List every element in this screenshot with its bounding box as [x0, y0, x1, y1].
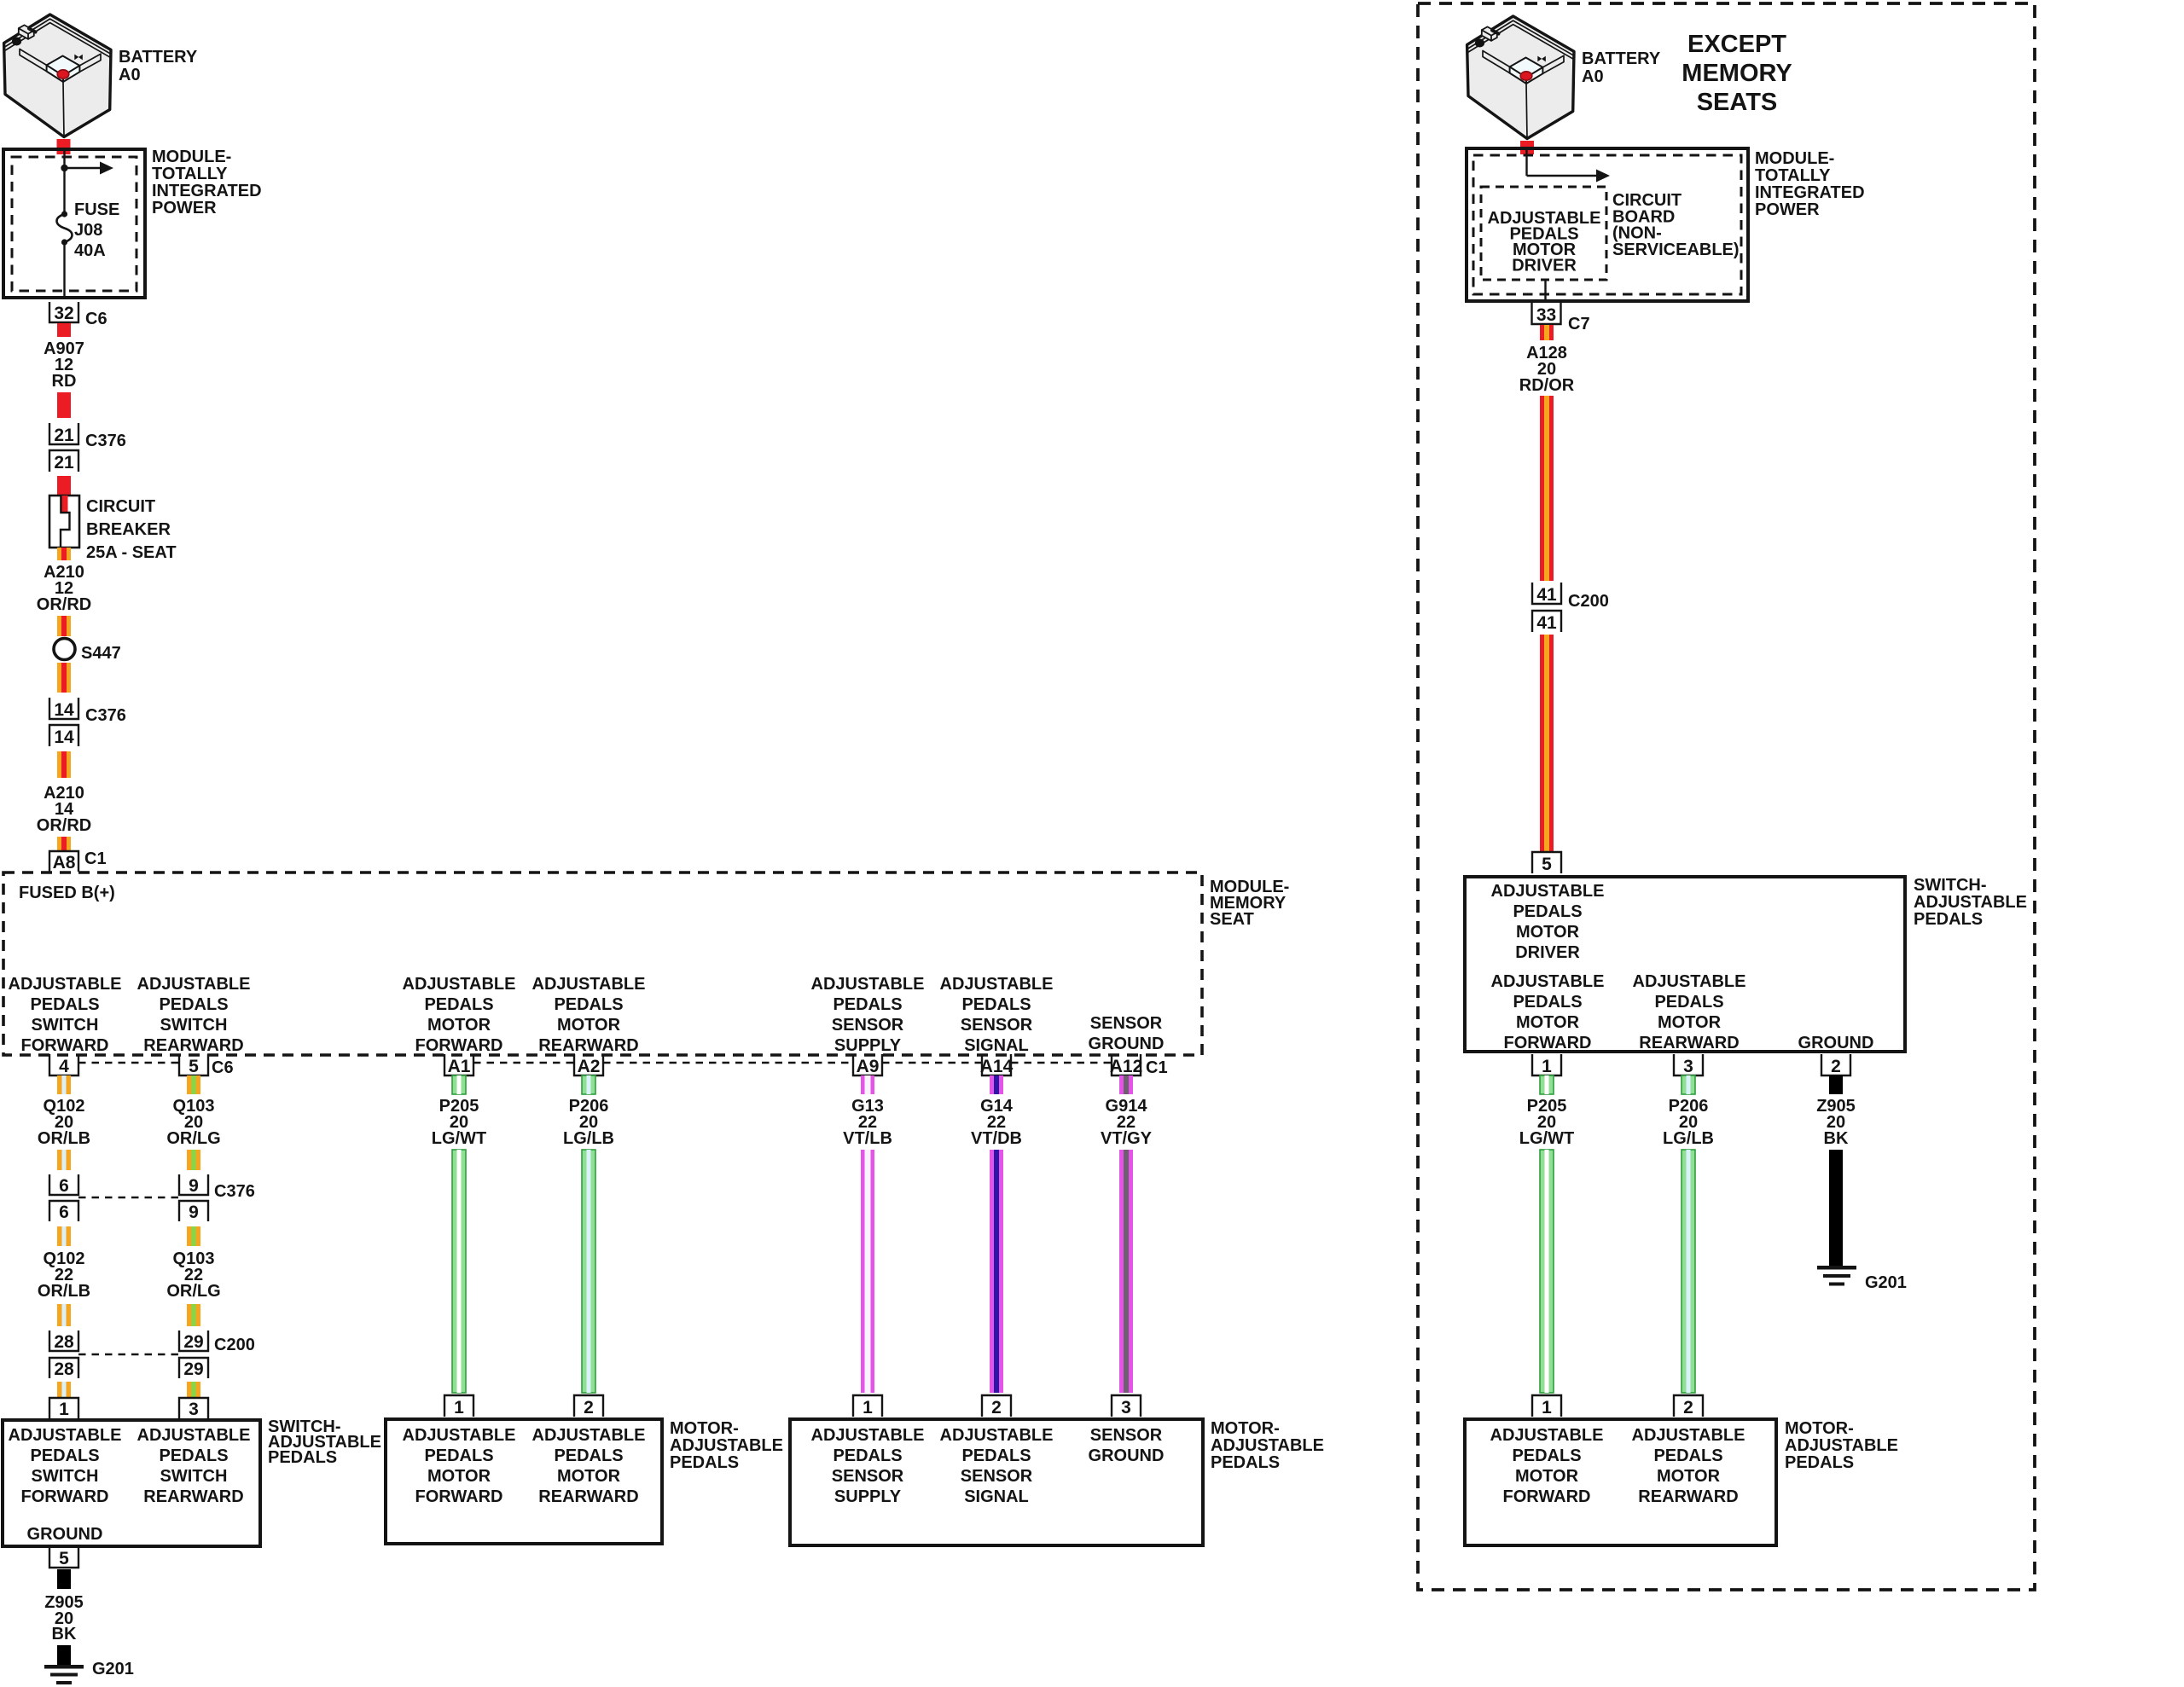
- svg-text:ADJUSTABLE: ADJUSTABLE: [9, 1426, 122, 1445]
- svg-text:1: 1: [59, 1400, 69, 1419]
- svg-text:3: 3: [1683, 1057, 1693, 1076]
- wire: Q102 stub 3 (OR/LB): [57, 1382, 71, 1398]
- connector pin 4 (C6): [49, 1054, 78, 1075]
- connector C200 pin 28 lower: [49, 1358, 78, 1378]
- svg-text:MODULE-: MODULE-: [1755, 149, 1834, 168]
- svg-text:PEDALS: PEDALS: [424, 1446, 493, 1465]
- svg-text:A0: A0: [119, 66, 141, 84]
- svg-text:BATTERY: BATTERY: [119, 48, 198, 67]
- svg-text:FORWARD: FORWARD: [415, 1487, 503, 1506]
- svg-text:PEDALS: PEDALS: [159, 995, 228, 1014]
- svg-text:LG/LB: LG/LB: [1663, 1129, 1714, 1148]
- fuse J08 40A symbol: [61, 211, 67, 217]
- svg-text:CIRCUIT: CIRCUIT: [86, 497, 155, 516]
- svg-text:2: 2: [1683, 1398, 1693, 1417]
- svg-text:ADJUSTABLE: ADJUSTABLE: [403, 1426, 516, 1445]
- wire: C1 interconnect dashes A9-A14: [882, 1062, 982, 1064]
- wire: battery A0 positive stub right (RD): [1520, 141, 1534, 154]
- svg-text:SENSOR: SENSOR: [832, 1016, 904, 1035]
- svg-text:MOTOR: MOTOR: [427, 1016, 491, 1035]
- svg-text:ADJUSTABLE: ADJUSTABLE: [1211, 1436, 1324, 1455]
- wire: G13 stub (VT/LB): [861, 1075, 874, 1094]
- wire G13 (VT/LB): [861, 1150, 874, 1393]
- wire Q102 upper (OR/LB): [57, 1150, 71, 1170]
- module MOTOR-ADJUSTABLE PEDALS box (left): [386, 1419, 662, 1544]
- svg-text:OR/LG: OR/LG: [166, 1282, 220, 1301]
- svg-text:ADJUSTABLE: ADJUSTABLE: [1491, 882, 1605, 901]
- svg-text:OR/LB: OR/LB: [38, 1282, 90, 1301]
- svg-text:C6: C6: [212, 1058, 234, 1077]
- svg-text:SIGNAL: SIGNAL: [964, 1487, 1029, 1506]
- wire: Q103 stub 3 (OR/LG): [187, 1382, 200, 1398]
- connector pin 1 (switch): [49, 1398, 78, 1418]
- svg-text:EXCEPT: EXCEPT: [1687, 31, 1786, 58]
- wire: G14 stub (VT/DB): [990, 1075, 1003, 1094]
- connector pin 1 (driver motor fwd): [1532, 1054, 1561, 1075]
- wire Q102 lower (OR/LB): [57, 1304, 71, 1326]
- svg-text:TOTALLY: TOTALLY: [152, 165, 228, 183]
- svg-text:MOTOR: MOTOR: [1658, 1013, 1722, 1032]
- connector pin 1 (motor fwd, left): [444, 1395, 473, 1417]
- wire: TIPM internal feed (bottom): [63, 242, 65, 296]
- svg-text:PEDALS: PEDALS: [554, 995, 623, 1014]
- svg-text:SWITCH: SWITCH: [160, 1016, 228, 1035]
- svg-text:MOTOR: MOTOR: [1516, 1013, 1580, 1032]
- wire: P205 stub (LG/WT): [452, 1075, 466, 1094]
- svg-text:BREAKER: BREAKER: [86, 520, 171, 539]
- svg-text:FUSE: FUSE: [74, 200, 119, 219]
- svg-text:OR/LG: OR/LG: [166, 1129, 220, 1148]
- svg-text:MOTOR: MOTOR: [427, 1467, 491, 1486]
- connector pin 3 (switch): [179, 1398, 208, 1418]
- svg-text:3: 3: [189, 1400, 199, 1419]
- svg-text:40A: 40A: [74, 241, 106, 260]
- svg-text:SENSOR: SENSOR: [1090, 1426, 1163, 1445]
- svg-text:A8: A8: [53, 853, 76, 872]
- svg-text:GROUND: GROUND: [1089, 1446, 1165, 1465]
- svg-text:PEDALS: PEDALS: [961, 1446, 1031, 1465]
- wire: Q102 stub (OR/LB): [57, 1075, 71, 1094]
- wire: P205 stub right (LG/WT): [1540, 1075, 1554, 1094]
- wire: Z905 stub right (BK): [1829, 1075, 1843, 1094]
- svg-text:9: 9: [189, 1176, 199, 1196]
- svg-text:C7: C7: [1568, 315, 1590, 333]
- svg-text:MEMORY: MEMORY: [1682, 60, 1792, 87]
- svg-text:POWER: POWER: [152, 199, 217, 217]
- svg-text:SEATS: SEATS: [1697, 89, 1778, 116]
- svg-text:INTEGRATED: INTEGRATED: [1755, 183, 1865, 202]
- connector pin 2 (driver ground): [1821, 1054, 1850, 1075]
- svg-text:SWITCH-: SWITCH-: [1914, 876, 1987, 895]
- svg-text:FORWARD: FORWARD: [21, 1036, 109, 1055]
- svg-text:BATTERY: BATTERY: [1582, 49, 1661, 68]
- svg-text:ADJUSTABLE: ADJUSTABLE: [670, 1436, 783, 1455]
- svg-text:14: 14: [54, 728, 74, 747]
- svg-text:C1: C1: [1146, 1058, 1168, 1077]
- svg-text:3: 3: [1121, 1398, 1131, 1417]
- wire P205 right (LG/WT): [1540, 1150, 1554, 1393]
- svg-text:MOTOR-: MOTOR-: [1785, 1419, 1854, 1438]
- svg-text:5: 5: [189, 1057, 199, 1076]
- connector pin A2 (C1): [574, 1054, 603, 1075]
- wire: Q102 stub 2 (OR/LB): [57, 1226, 71, 1246]
- svg-text:LG/WT: LG/WT: [432, 1129, 486, 1148]
- connector C376 pin 9 upper: [179, 1174, 208, 1195]
- svg-text:5: 5: [59, 1549, 69, 1568]
- wire: C1 interconnect dashes A2-A9: [603, 1062, 853, 1064]
- wire A128 lower (RD/OR): [1540, 635, 1554, 851]
- svg-text:TOTALLY: TOTALLY: [1755, 166, 1831, 185]
- svg-text:PEDALS: PEDALS: [1513, 993, 1582, 1012]
- svg-text:C200: C200: [1568, 592, 1609, 611]
- svg-text:FORWARD: FORWARD: [1503, 1487, 1591, 1506]
- wire Q103 lower (OR/LG): [187, 1304, 200, 1326]
- connector pin 33 (C7): [1532, 303, 1561, 324]
- connector pin A12 (C1): [1112, 1054, 1141, 1075]
- wire A210 upper (OR/RD): [57, 616, 71, 636]
- svg-text:28: 28: [54, 1332, 74, 1352]
- wire: C200 interconnect dashes 28-29: [78, 1354, 179, 1355]
- wire: C1 interconnect dashes A14-A12: [1011, 1062, 1112, 1064]
- svg-text:ADJUSTABLE: ADJUSTABLE: [1633, 972, 1746, 991]
- svg-text:G201: G201: [92, 1660, 134, 1678]
- wire: battery A0 positive stub (RD): [57, 139, 71, 154]
- svg-text:GROUND: GROUND: [1089, 1035, 1165, 1053]
- svg-text:OR/LB: OR/LB: [38, 1129, 90, 1148]
- wire A907 (RD): [57, 392, 71, 418]
- connector C376 pin 9 lower: [179, 1201, 208, 1221]
- svg-text:S447: S447: [81, 644, 121, 663]
- connector pin 5 (switch ground): [49, 1546, 78, 1568]
- connector pin 5 (driver B+): [1532, 852, 1561, 873]
- svg-text:28: 28: [54, 1359, 74, 1379]
- wire A210 below splice (OR/RD): [57, 663, 71, 693]
- connector pin 2 (motor rwd, left): [574, 1395, 603, 1417]
- svg-text:4: 4: [59, 1057, 69, 1076]
- wire Z905 (BK): [57, 1645, 71, 1666]
- svg-text:6: 6: [59, 1203, 69, 1222]
- wire P206 (LG/LB): [582, 1150, 595, 1393]
- svg-text:33: 33: [1536, 305, 1556, 325]
- wire: Q103 stub (OR/LG): [187, 1075, 200, 1094]
- connector pin 5 (C6): [179, 1054, 208, 1075]
- svg-text:ADJUSTABLE: ADJUSTABLE: [1785, 1436, 1898, 1455]
- svg-text:LG/WT: LG/WT: [1519, 1129, 1574, 1148]
- connector C376 pin 21 lower: [49, 450, 78, 472]
- module MEMORY SEAT dashed box: [3, 872, 1202, 1055]
- svg-text:PEDALS: PEDALS: [159, 1446, 228, 1465]
- svg-text:RD/OR: RD/OR: [1519, 376, 1575, 395]
- svg-text:DRIVER: DRIVER: [1515, 943, 1580, 962]
- svg-text:PEDALS: PEDALS: [670, 1453, 739, 1472]
- svg-text:SUPPLY: SUPPLY: [834, 1036, 902, 1055]
- svg-text:VT/GY: VT/GY: [1101, 1129, 1153, 1148]
- svg-text:REARWARD: REARWARD: [538, 1487, 638, 1506]
- svg-text:C200: C200: [214, 1336, 255, 1354]
- svg-text:GROUND: GROUND: [27, 1525, 103, 1544]
- svg-text:J08: J08: [74, 221, 102, 240]
- arrow: TIPM bus feed (right): [1527, 175, 1599, 177]
- svg-text:POWER: POWER: [1755, 200, 1820, 219]
- svg-text:ADJUSTABLE: ADJUSTABLE: [532, 1426, 646, 1445]
- module MOTOR-ADJUSTABLE PEDALS box (right): [1465, 1419, 1776, 1545]
- wire: Z905 stub (BK): [57, 1569, 71, 1589]
- connector C376 pin 14 lower: [49, 725, 78, 746]
- svg-text:2: 2: [1831, 1057, 1841, 1076]
- svg-text:PEDALS: PEDALS: [1654, 993, 1723, 1012]
- svg-text:INTEGRATED: INTEGRATED: [152, 182, 262, 200]
- svg-text:RD: RD: [52, 372, 77, 391]
- wire: C6 interconnect dashes 4-5: [78, 1062, 179, 1064]
- svg-text:FORWARD: FORWARD: [1504, 1034, 1592, 1052]
- svg-text:DRIVER: DRIVER: [1512, 257, 1577, 275]
- wire P205 (LG/WT): [452, 1150, 466, 1393]
- connector pin 1 (motor fwd, right): [1532, 1395, 1561, 1417]
- svg-text:C376: C376: [214, 1182, 255, 1201]
- svg-text:1: 1: [454, 1398, 464, 1417]
- connector C200 pin 29 lower: [179, 1358, 208, 1378]
- wire: A907 stub (RD): [57, 323, 71, 337]
- svg-text:MOTOR: MOTOR: [557, 1467, 621, 1486]
- svg-text:MOTOR: MOTOR: [557, 1016, 621, 1035]
- svg-text:5: 5: [1542, 855, 1552, 874]
- svg-text:ADJUSTABLE: ADJUSTABLE: [403, 975, 516, 994]
- svg-text:FORWARD: FORWARD: [415, 1036, 503, 1055]
- connector C200 pin 41 lower: [1532, 611, 1561, 632]
- svg-text:A1: A1: [448, 1057, 471, 1076]
- connector C200 pin 28 upper: [49, 1330, 78, 1351]
- svg-text:ADJUSTABLE: ADJUSTABLE: [9, 975, 122, 994]
- wire P206 right (LG/LB): [1682, 1150, 1695, 1393]
- svg-text:REARWARD: REARWARD: [143, 1036, 243, 1055]
- svg-text:SEAT: SEAT: [1210, 910, 1254, 929]
- wire: A210 stub below breaker (OR/RD): [57, 548, 71, 560]
- wire Q103 upper (OR/LG): [187, 1150, 200, 1170]
- svg-text:14: 14: [54, 700, 74, 720]
- wire: TIPM internal feed (right): [1525, 150, 1527, 176]
- module SWITCH-ADJUSTABLE PEDALS box: [3, 1420, 260, 1546]
- connector C376 pin 6 upper: [49, 1174, 78, 1195]
- svg-text:SENSOR: SENSOR: [961, 1467, 1033, 1486]
- svg-text:A0: A0: [1582, 67, 1604, 86]
- wire: driver output to module edge: [1544, 280, 1546, 300]
- svg-text:PEDALS: PEDALS: [1512, 1446, 1581, 1465]
- battery A0 (left): [4, 14, 111, 137]
- svg-text:BK: BK: [52, 1625, 77, 1644]
- svg-text:SWITCH: SWITCH: [32, 1467, 99, 1486]
- svg-text:6: 6: [59, 1176, 69, 1196]
- svg-text:SENSOR: SENSOR: [1090, 1014, 1163, 1033]
- connector pin 3 (driver motor rwd): [1674, 1054, 1703, 1075]
- connector C376 pin 21 upper: [49, 423, 78, 444]
- svg-text:MODULE-: MODULE-: [152, 148, 231, 166]
- svg-text:ADJUSTABLE: ADJUSTABLE: [811, 975, 925, 994]
- connector pin 1 (sensor supply): [853, 1395, 882, 1417]
- svg-text:ADJUSTABLE: ADJUSTABLE: [940, 1426, 1054, 1445]
- svg-text:VT/DB: VT/DB: [971, 1129, 1022, 1148]
- svg-text:FORWARD: FORWARD: [21, 1487, 109, 1506]
- svg-text:PEDALS: PEDALS: [833, 1446, 902, 1465]
- svg-text:MOTOR: MOTOR: [1515, 1467, 1579, 1486]
- connector pin A1 (C1): [444, 1054, 473, 1075]
- svg-text:PEDALS: PEDALS: [1914, 910, 1983, 929]
- svg-text:OR/RD: OR/RD: [37, 816, 91, 835]
- svg-text:MOTOR: MOTOR: [1657, 1467, 1721, 1486]
- svg-text:PEDALS: PEDALS: [30, 995, 99, 1014]
- svg-text:ADJUSTABLE: ADJUSTABLE: [940, 975, 1054, 994]
- wire A210 14 (OR/RD): [57, 751, 71, 778]
- ground G201 (right): [1817, 1266, 1856, 1270]
- module MOTOR-ADJUSTABLE PEDALS sensor box: [790, 1419, 1203, 1545]
- svg-text:PEDALS: PEDALS: [554, 1446, 623, 1465]
- svg-text:REARWARD: REARWARD: [1638, 1487, 1738, 1506]
- module TIPM inner dashed boundary (right): [1473, 155, 1741, 294]
- svg-text:SENSOR: SENSOR: [961, 1016, 1033, 1035]
- svg-text:MOTOR-: MOTOR-: [670, 1419, 739, 1438]
- connector C376 pin 6 lower: [49, 1201, 78, 1221]
- svg-text:2: 2: [991, 1398, 1002, 1417]
- connector pin 3 (sensor ground): [1112, 1395, 1141, 1417]
- svg-text:21: 21: [54, 426, 74, 445]
- connector pin 2 (motor rwd, right): [1674, 1395, 1703, 1417]
- svg-text:PEDALS: PEDALS: [1513, 902, 1582, 921]
- arrow: TIPM bus feed: [65, 167, 102, 169]
- connector C200 pin 29 upper: [179, 1330, 208, 1351]
- svg-text:A14: A14: [980, 1057, 1014, 1076]
- svg-text:PEDALS: PEDALS: [833, 995, 902, 1014]
- module TIPM inner dashed boundary (left): [12, 157, 136, 291]
- ground G201 (left): [44, 1665, 84, 1669]
- connector pin A9 (C1): [853, 1054, 882, 1075]
- svg-text:REARWARD: REARWARD: [538, 1036, 638, 1055]
- circuit breaker 25A-SEAT symbol: [49, 496, 79, 548]
- connector C376 pin 14 upper: [49, 698, 78, 719]
- svg-text:ADJUSTABLE: ADJUSTABLE: [1490, 1426, 1604, 1445]
- svg-text:25A - SEAT: 25A - SEAT: [86, 543, 177, 562]
- svg-text:ADJUSTABLE: ADJUSTABLE: [1914, 893, 2027, 912]
- svg-text:41: 41: [1536, 585, 1557, 605]
- wire G14 (VT/DB): [990, 1150, 1003, 1393]
- battery A0 (right): [1467, 16, 1574, 139]
- svg-text:MOTOR-: MOTOR-: [1211, 1419, 1280, 1438]
- svg-text:1: 1: [1542, 1398, 1552, 1417]
- svg-text:PEDALS: PEDALS: [1653, 1446, 1722, 1465]
- svg-text:C6: C6: [85, 310, 107, 328]
- svg-text:SENSOR: SENSOR: [832, 1467, 904, 1486]
- svg-text:41: 41: [1536, 613, 1557, 633]
- module TIPM outer box (left): [3, 149, 145, 298]
- wire: C376 interconnect dashes 6-9: [78, 1197, 179, 1198]
- svg-text:ADJUSTABLE: ADJUSTABLE: [1491, 972, 1605, 991]
- svg-text:PEDALS: PEDALS: [268, 1448, 337, 1467]
- module ADJUSTABLE PEDALS MOTOR DRIVER dashed box: [1481, 187, 1606, 280]
- connector pin 2 (sensor signal): [982, 1395, 1011, 1417]
- svg-text:SWITCH: SWITCH: [32, 1016, 99, 1035]
- svg-text:PEDALS: PEDALS: [30, 1446, 99, 1465]
- connector pin 32 (C6): [49, 302, 78, 322]
- svg-text:REARWARD: REARWARD: [143, 1487, 243, 1506]
- wire A128 upper (RD/OR): [1540, 396, 1554, 581]
- wire: P206 stub right (LG/LB): [1682, 1075, 1695, 1094]
- node: TIPM feed junction: [61, 165, 67, 171]
- svg-text:C1: C1: [84, 849, 107, 868]
- svg-text:2: 2: [584, 1398, 594, 1417]
- svg-text:SUPPLY: SUPPLY: [834, 1487, 902, 1506]
- svg-text:REARWARD: REARWARD: [1639, 1034, 1739, 1052]
- wire: Q103 stub 2 (OR/LG): [187, 1226, 200, 1246]
- svg-text:GROUND: GROUND: [1798, 1034, 1874, 1052]
- wire Z905 right (BK): [1829, 1150, 1843, 1267]
- svg-text:1: 1: [1542, 1057, 1552, 1076]
- svg-text:SIGNAL: SIGNAL: [964, 1036, 1029, 1055]
- svg-text:A9: A9: [857, 1057, 880, 1076]
- svg-text:LG/LB: LG/LB: [563, 1129, 614, 1148]
- svg-text:29: 29: [183, 1332, 203, 1352]
- svg-text:SERVICEABLE): SERVICEABLE): [1612, 241, 1740, 259]
- svg-text:ADJUSTABLE: ADJUSTABLE: [137, 1426, 251, 1445]
- svg-text:PEDALS: PEDALS: [961, 995, 1031, 1014]
- svg-text:A12: A12: [1110, 1057, 1143, 1076]
- connector pin A14 (C1): [982, 1054, 1011, 1075]
- svg-text:C376: C376: [85, 706, 126, 725]
- svg-text:PEDALS: PEDALS: [424, 995, 493, 1014]
- svg-text:ADJUSTABLE: ADJUSTABLE: [137, 975, 251, 994]
- connector C200 pin 41 upper: [1532, 583, 1561, 604]
- svg-text:MOTOR: MOTOR: [1516, 923, 1580, 942]
- wire stub above A8 (OR/RD): [57, 837, 71, 850]
- svg-text:C376: C376: [85, 432, 126, 450]
- svg-text:21: 21: [54, 453, 74, 472]
- wire G914 (VT/GY): [1119, 1150, 1133, 1393]
- wire: G914 stub (VT/GY): [1119, 1075, 1133, 1094]
- svg-text:OR/RD: OR/RD: [37, 595, 91, 614]
- EXCEPT MEMORY SEATS outer dashed box: [1418, 3, 2035, 1590]
- module ADJUSTABLE PEDALS MOTOR DRIVER box (switch-adjustable pedals): [1465, 877, 1905, 1052]
- wire stub below C376 (RD): [57, 476, 71, 496]
- wire: C1 interconnect dashes A1-A2: [473, 1062, 574, 1064]
- svg-text:G201: G201: [1865, 1273, 1907, 1292]
- svg-text:A2: A2: [578, 1057, 601, 1076]
- connector pin A8 (C1): [49, 851, 78, 872]
- svg-text:1: 1: [863, 1398, 873, 1417]
- svg-text:VT/LB: VT/LB: [843, 1129, 892, 1148]
- svg-text:PEDALS: PEDALS: [1211, 1453, 1280, 1472]
- svg-text:PEDALS: PEDALS: [1785, 1453, 1854, 1472]
- module TIPM outer box (right): [1467, 148, 1748, 301]
- wire: A128 stub (RD/OR): [1540, 325, 1554, 340]
- svg-text:ADJUSTABLE: ADJUSTABLE: [1632, 1426, 1745, 1445]
- wire: P206 stub (LG/LB): [582, 1075, 595, 1094]
- wire: TIPM internal feed (top): [63, 151, 65, 214]
- svg-text:BK: BK: [1824, 1129, 1849, 1148]
- svg-text:9: 9: [189, 1203, 199, 1222]
- svg-text:ADJUSTABLE: ADJUSTABLE: [811, 1426, 925, 1445]
- splice S447: [54, 639, 75, 660]
- svg-text:29: 29: [183, 1359, 203, 1379]
- svg-text:FUSED B(+): FUSED B(+): [19, 884, 115, 902]
- svg-text:SWITCH: SWITCH: [160, 1467, 228, 1486]
- svg-text:ADJUSTABLE: ADJUSTABLE: [532, 975, 646, 994]
- svg-text:32: 32: [54, 304, 73, 323]
